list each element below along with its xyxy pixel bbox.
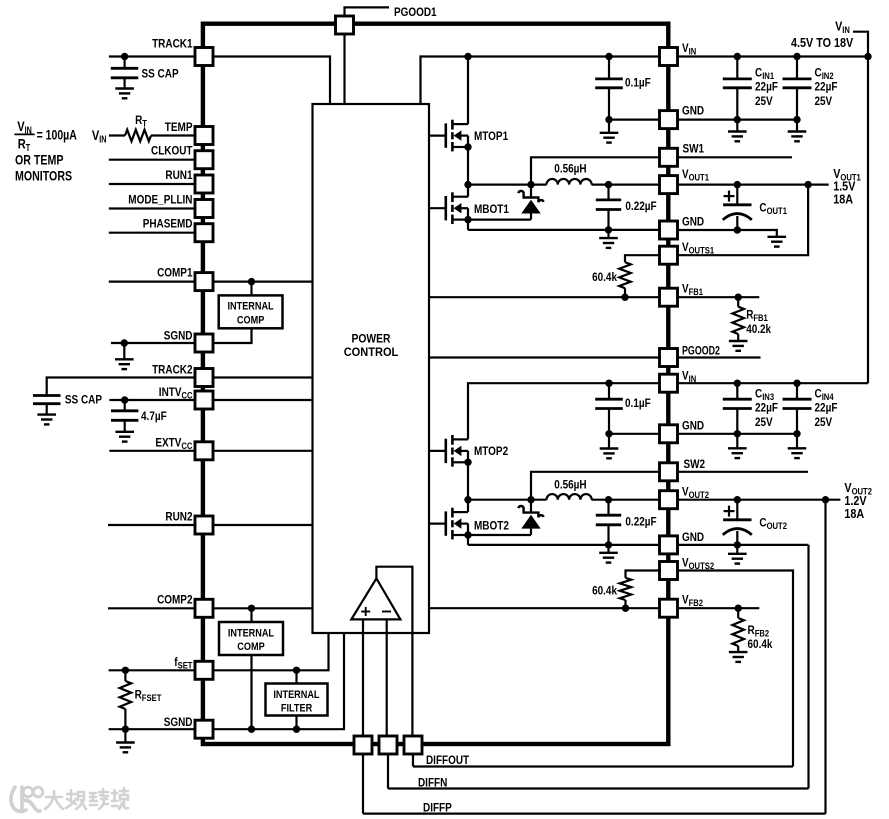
junction VOUTS1 riser/VOUT1 [804, 181, 811, 188]
wire 0.22uF ch1 ground stub [607, 230, 609, 238]
label CIN1 22uF [755, 80, 778, 94]
label MONITORS [15, 167, 72, 183]
junction SGND2/internal comp2 [248, 726, 255, 733]
capacitor SS CAP (TRACK1) [111, 68, 139, 78]
label CIN2 22uF [815, 80, 838, 94]
label CONTROL [344, 345, 399, 359]
wire TRACK2 to SS CAP2 [47, 378, 195, 396]
wire MTOP1 source to SW node [467, 147, 469, 185]
label RUN1 [165, 168, 192, 182]
capacitor SS CAP (TRACK2) [33, 396, 61, 404]
wire SGND1 ground stub [123, 343, 125, 359]
junction FSET/internal filter [293, 667, 300, 674]
svg-text:T: T [142, 119, 147, 129]
ground 0.1uF ch1 [600, 133, 619, 143]
wire TRACK1 to power control [213, 57, 330, 105]
svg-text:SW2: SW2 [684, 457, 706, 471]
junction DIFFP riser/VOUT2 [822, 496, 829, 503]
label pin SW1 [683, 142, 705, 156]
svg-text:R: R [18, 135, 26, 151]
label pin VOUTS2 [682, 555, 714, 571]
wire RFB1 bottom stub [737, 334, 739, 341]
svg-text:OUTS2: OUTS2 [689, 561, 715, 571]
wire 0.1uF ch2 top [608, 383, 610, 399]
svg-text:COMP2: COMP2 [157, 593, 193, 607]
wire SW node ch1 horizontal [468, 184, 547, 186]
wire TRACK2 to power control [213, 376, 313, 378]
watermark logo [11, 787, 43, 811]
svg-text:18A: 18A [844, 506, 864, 521]
label pin GND1 [682, 104, 704, 118]
label 4.5V TO 18V [791, 35, 853, 50]
junction 0.22uF ch1 / gnd rail [605, 226, 612, 233]
wire CIN3 bottom [736, 409, 738, 434]
wire internal comp1 top tap [250, 282, 252, 296]
pin VOUTS1 right [660, 246, 678, 264]
block INTERNAL COMP 2 [219, 622, 283, 655]
junction SW node ch2 [464, 496, 471, 503]
block INTERNAL FILTER [266, 684, 328, 716]
wire CIN2 top [796, 57, 798, 79]
label 60.4k ch1 [592, 270, 617, 284]
svg-text:SW1: SW1 [683, 142, 705, 156]
junction VIN2/0.1uF ch2 [605, 380, 612, 387]
wire 0.22uF ch1 top [607, 185, 609, 200]
wire COUT2 bottom [736, 531, 738, 545]
junction CIN3/GND3 wire [734, 430, 741, 437]
wire CIN1 bottom [736, 88, 738, 120]
wire inductor L1 to VOUT1 pin [592, 184, 660, 186]
wire 4.7uF bottom [124, 420, 126, 432]
label DIFFN [418, 775, 447, 789]
pin VFB1 right [660, 288, 678, 306]
wire CIN3 top [736, 383, 738, 399]
wire RFB2 top stub [737, 608, 739, 618]
label pin VFB2 [682, 593, 703, 609]
label COMP2 [157, 593, 193, 607]
svg-text:CC: CC [182, 390, 193, 400]
wire CIN2 bottom [796, 88, 798, 120]
svg-text:60.4k: 60.4k [748, 637, 773, 651]
label VOUT1 rail [833, 166, 861, 183]
ground SS CAP2 [37, 415, 56, 425]
wire INTVCC left stub [109, 399, 195, 401]
wire VOUT1 pin to output rail [678, 184, 829, 186]
pin VIN right [660, 48, 678, 66]
svg-text:MTOP1: MTOP1 [474, 129, 508, 143]
resistor RFSET [120, 681, 132, 709]
label SS CAP 2 [65, 393, 102, 407]
svg-text:IN: IN [689, 47, 697, 57]
label 4.7uF [141, 409, 167, 423]
ground CIN3 [728, 448, 747, 458]
wire DIFFN riser [807, 545, 809, 789]
label SGND 2 [164, 715, 193, 729]
wire COUT1 top [736, 185, 738, 205]
junction CIN2/GND wire [793, 116, 800, 123]
resistor 60.4k ch1 [619, 262, 631, 288]
junction RFB2/VFB2 [735, 605, 742, 612]
wire RT to TEMP pin [151, 134, 195, 136]
svg-text:COMP1: COMP1 [157, 266, 193, 280]
svg-text:EXTV: EXTV [155, 436, 181, 450]
wire COMP2 to power control [213, 607, 313, 609]
wire VOUTS2 to DIFFOUT riser [678, 571, 794, 767]
wire SS CAP2 bottom [46, 404, 48, 415]
wire gnd rail ch1 [468, 229, 660, 231]
svg-text:4.7µF: 4.7µF [141, 409, 167, 423]
svg-text:INTERNAL: INTERNAL [228, 627, 274, 639]
ground SS CAP1 [115, 89, 134, 99]
resistor RFB1 40.2k [732, 307, 744, 334]
junction 60.4k ch2/VFB2 [622, 605, 629, 612]
wire internal filter top tap [295, 670, 297, 683]
pin EXTVCC left [195, 442, 213, 460]
svg-text:FB2: FB2 [689, 598, 703, 608]
wire CLKOUT [109, 159, 195, 161]
capacitor 0.22uF ch1 [596, 200, 621, 210]
wire VIN1 pin to input rail [678, 55, 869, 57]
label OR TEMP [15, 151, 64, 167]
svg-text:GND: GND [682, 419, 704, 433]
wire VOUTS1 to output rail riser [678, 185, 809, 256]
ground COUT1 [768, 237, 787, 247]
capacitor 0.1uF ch1 [595, 79, 623, 88]
pin RUN1 left [195, 175, 213, 193]
svg-text:0.56µH: 0.56µH [554, 477, 586, 491]
pin VIN right [660, 374, 678, 392]
junction COUT2/VOUT2 [734, 496, 741, 503]
junction CIN4/VIN2 [793, 380, 800, 387]
wire SW2 from pin to switch node [531, 472, 660, 500]
wire CIN4 bottom [796, 409, 798, 434]
wire internal filter bottom tap [295, 716, 297, 730]
label MODE_PLLIN [128, 193, 192, 207]
resistor RT [125, 130, 151, 142]
label CIN3 25V [755, 415, 773, 429]
wire VOUTS2 to 60.4k ch2 [626, 571, 660, 578]
label pin GND3 [682, 419, 704, 433]
wire PGOOD2 from power control to pin [429, 356, 660, 358]
junction COMP1/internal comp [248, 278, 255, 285]
label pin VFB1 [682, 282, 703, 298]
label 0.56uH ch1 [554, 161, 586, 175]
wire GND1 pin to CIN2 [678, 118, 798, 120]
label POWER [352, 332, 391, 346]
svg-text:INTV: INTV [159, 385, 182, 399]
label CIN2 [815, 65, 834, 81]
junction L1/0.22uF ch1 [605, 181, 612, 188]
wire CIN1 ground stub [736, 120, 738, 132]
pin VOUTS2 right [660, 562, 678, 580]
wire VIN2 pin to input rail [678, 382, 869, 384]
transistor MBOT1 [429, 192, 472, 224]
label MTOP1 [474, 129, 508, 143]
wire 0.1uF ch2 ground stub [608, 434, 610, 449]
junction SW node ch1 [464, 181, 471, 188]
junction VIN1/0.1uF ch1 [605, 53, 612, 60]
wire 60.4k ch1 bottom stub [624, 288, 626, 297]
label MTOP2 [474, 444, 508, 458]
junction COMP2/internal comp2 [248, 605, 255, 612]
label TRACK2 [152, 362, 193, 376]
wire VFB1 from power control to pin [429, 296, 660, 298]
wire CIN1 top [736, 57, 738, 79]
wire MBOT1 source down to gnd rail [467, 220, 469, 230]
wire COMP2 left stub [108, 607, 195, 609]
capacitor 4.7uF [111, 411, 138, 421]
svg-text:IN: IN [689, 374, 697, 384]
ground COUT2 [728, 554, 747, 564]
pin CLKOUT left [195, 151, 213, 169]
svg-text:TRACK2: TRACK2 [152, 362, 193, 376]
label diff amp minus input [382, 611, 391, 613]
op-amp diff amplifier DA1 [351, 578, 400, 619]
label 1.2V [844, 493, 866, 508]
wire SGND1 [111, 342, 195, 344]
label pin PGOOD2 [682, 344, 720, 358]
label CIN3 [755, 386, 774, 402]
label pin VIN2 [682, 369, 696, 385]
pin PGOOD1 [336, 16, 354, 34]
label CLKOUT [151, 144, 193, 158]
label RFB2 [748, 623, 770, 639]
wire SW2 right stub [678, 471, 809, 473]
plus sign COUT2 [724, 506, 735, 517]
junction CIN4/GND3 wire [793, 430, 800, 437]
label 60.4k ch2 [592, 584, 617, 598]
wire FSET left stub [109, 669, 195, 671]
svg-text:OUT1: OUT1 [767, 206, 787, 216]
ground CIN4 [788, 448, 807, 458]
svg-text:INTERNAL: INTERNAL [273, 689, 319, 701]
wire VFB2 from power control to pin [429, 607, 660, 609]
label SS CAP 1 [142, 67, 179, 81]
svg-text:DIFFP: DIFFP [423, 800, 452, 814]
ground RFB1 [729, 341, 748, 351]
label pin VOUTS1 [682, 240, 714, 256]
junction 60.4k/VFB1 [621, 294, 628, 301]
pin TRACK2 left [195, 369, 213, 387]
svg-text:OUT2: OUT2 [767, 521, 787, 531]
junction 0.22uF ch2/gnd rail [605, 541, 612, 548]
wire MBOT2 drain to SW node [467, 500, 469, 512]
wire MBOT1 source to diode anode [468, 219, 531, 221]
svg-text:SGND: SGND [164, 715, 193, 729]
wire COUT1 bottom [736, 216, 738, 230]
label CIN4 22uF [815, 401, 838, 415]
pin DIFFN bottom [379, 736, 397, 754]
label 0.22uF ch1 [625, 199, 656, 213]
svg-text:FSET: FSET [142, 693, 162, 703]
wire DIFFN pin stub [387, 754, 389, 789]
wire RUN2 left stub [108, 524, 195, 526]
wire PGOOD2 right stub [678, 356, 761, 358]
svg-text:60.4k: 60.4k [592, 270, 617, 284]
svg-text:PGOOD2: PGOOD2 [682, 344, 720, 358]
wire SGND2 ground stub [124, 729, 126, 742]
svg-text:OR TEMP: OR TEMP [15, 151, 64, 167]
label fSET [174, 655, 193, 671]
junction VIN1/MTOP1 drain [464, 53, 471, 60]
wire CIN4 ground stub [796, 434, 798, 449]
capacitor 0.1uF ch2 [595, 399, 623, 408]
label pin GND2 [682, 215, 704, 229]
svg-text:25V: 25V [815, 94, 833, 108]
svg-text:OUT2: OUT2 [689, 490, 709, 500]
junction INTVCC / 4.7uF [121, 396, 128, 403]
ground CIN2 [788, 132, 807, 142]
junction FSET/RFSET [122, 667, 129, 674]
svg-text:22µF: 22µF [755, 401, 778, 415]
junction TRACK1/SS CAP [121, 53, 128, 60]
junction 0.1uF ch2/GND3 wire [605, 430, 612, 437]
wire MBOT1 drain to SW node [467, 185, 469, 197]
junction SGND2/internal filter [293, 726, 300, 733]
label RFB2 60.4k [748, 637, 773, 651]
svg-text:0.56µH: 0.56µH [554, 161, 586, 175]
pin DIFFP bottom [354, 736, 372, 754]
wire SGND2 to power control bottom [213, 633, 344, 729]
svg-text:0.22µF: 0.22µF [625, 514, 656, 528]
junction VIN rail corner [864, 53, 871, 60]
label CIN4 [815, 386, 834, 402]
label 0.22uF ch2 [625, 514, 656, 528]
junction SGND1 ground [121, 339, 128, 346]
svg-text:SET: SET [178, 660, 193, 670]
wire TRACK1 left stub [109, 55, 195, 57]
svg-text:60.4k: 60.4k [592, 584, 617, 598]
wire 0.1uF ch1 bottom [608, 88, 610, 120]
resistor RFB2 60.4k [732, 618, 744, 646]
svg-text:22µF: 22µF [815, 80, 838, 94]
wire GND2 pin to COUT1 ground [678, 230, 777, 237]
wire RFB2 bottom stub [737, 646, 739, 652]
inductor L2 0.56uH [547, 494, 592, 500]
label PHASEMD [143, 217, 193, 231]
label pin SW2 [684, 457, 706, 471]
label RUN2 [165, 509, 192, 523]
label 18A ch1 [833, 192, 853, 207]
pin DIFFOUT bottom [404, 736, 422, 754]
wire VIN to RT [109, 134, 125, 136]
pin VOUT1 right [660, 176, 678, 194]
wire DIFFN rail [388, 787, 809, 789]
label diff amp plus input [361, 607, 370, 616]
wire CIN2 ground stub [796, 120, 798, 132]
wire gnd rail ch2 [468, 544, 660, 546]
svg-text:TRACK1: TRACK1 [152, 37, 193, 51]
wire DIFFP riser [824, 500, 826, 814]
wire MBOT2 source to diode anode [468, 534, 531, 536]
label TEMP [165, 120, 193, 134]
wire VIN1 rail from pin to power control [421, 57, 660, 105]
svg-text:CLKOUT: CLKOUT [151, 144, 193, 158]
junction 0.1uF ch1 / GND1 wire [605, 116, 612, 123]
wire MBOT2 source down [467, 535, 469, 545]
svg-text:DIFFOUT: DIFFOUT [426, 753, 470, 767]
svg-text:OUTS1: OUTS1 [689, 246, 715, 256]
label COUT1 [759, 201, 787, 217]
svg-text:IN: IN [99, 135, 106, 146]
wire 0.22uF ch2 ground stub [607, 545, 609, 553]
junction COUT2/GND4 wire [734, 541, 741, 548]
pin SW2 right [660, 463, 678, 481]
label INTVCC [159, 385, 193, 401]
label VIN supply [835, 18, 850, 35]
svg-text:4.5V TO 18V: 4.5V TO 18V [791, 35, 853, 50]
wire internal comp1 bottom tap [213, 328, 252, 343]
pin PGOOD2 right [660, 349, 678, 367]
label COMP1 [157, 266, 193, 280]
svg-text:MODE_PLLIN: MODE_PLLIN [128, 193, 192, 207]
junction CIN2/VIN rail [793, 53, 800, 60]
svg-text:IN: IN [842, 25, 850, 35]
wire CIN3 ground stub [736, 434, 738, 449]
wire CIN4 top [796, 383, 798, 399]
ground 0.22uF ch2 [599, 553, 618, 563]
label pin VIN1 [682, 41, 696, 57]
svg-text:MONITORS: MONITORS [15, 167, 72, 183]
wire 0.1uF ch1 ground stub [608, 120, 610, 133]
wire 60.4k ch2 bottom stub [624, 600, 626, 608]
wire RUN1 [109, 183, 195, 185]
wire internal comp2 top tap [250, 608, 252, 622]
label CIN3 22uF [755, 401, 778, 415]
svg-text:MTOP2: MTOP2 [474, 444, 508, 458]
junction RFB1/VFB1 [735, 294, 742, 301]
pin TRACK1 left [195, 48, 213, 66]
label MBOT1 [474, 202, 509, 216]
watermark text da shu kua jing [45, 788, 128, 809]
wire GND4 pin to DIFFN riser [678, 544, 809, 546]
junction COUT1/GND2 wire [734, 226, 741, 233]
wire FSET to power control bottom [213, 633, 329, 670]
wire diff amp plus input to DIFFP pin [362, 619, 364, 736]
pin MODE_PLLIN left [195, 200, 213, 218]
svg-text:0.1µF: 0.1µF [625, 76, 651, 90]
transistor MBOT2 [429, 508, 472, 540]
pin GND right [660, 536, 678, 554]
svg-text:RUN1: RUN1 [165, 168, 192, 182]
wire 0.1uF ch2 bottom [608, 409, 610, 434]
label RFB1 40.2k [746, 322, 771, 336]
label 1.5V [833, 179, 855, 194]
ground SGND2 [116, 743, 135, 753]
label CIN1 25V [755, 94, 773, 108]
pin SGND left [195, 720, 213, 738]
svg-text:OUT1: OUT1 [689, 172, 709, 182]
label PGOOD1 [394, 5, 437, 19]
wire PGOOD1 stub [345, 7, 390, 16]
wire RFSET bottom stub [124, 709, 126, 729]
svg-text:RUN2: RUN2 [165, 509, 192, 523]
wire MTOP1 drain riser [467, 57, 469, 125]
label 18A ch2 [844, 506, 864, 521]
label MBOT2 [474, 519, 509, 533]
label RT [135, 113, 147, 129]
resistor 60.4k ch2 [620, 578, 632, 600]
ground CIN1 [728, 132, 747, 142]
node VIN left [92, 127, 107, 146]
label 0.1uF ch1 [625, 76, 651, 90]
svg-text:25V: 25V [755, 415, 773, 429]
wire MTOP2 source to SW node [467, 462, 469, 499]
svg-text:GND: GND [682, 215, 704, 229]
svg-text:0.22µF: 0.22µF [625, 199, 656, 213]
svg-text:PGOOD1: PGOOD1 [394, 5, 437, 19]
pin RUN2 left [195, 516, 213, 534]
